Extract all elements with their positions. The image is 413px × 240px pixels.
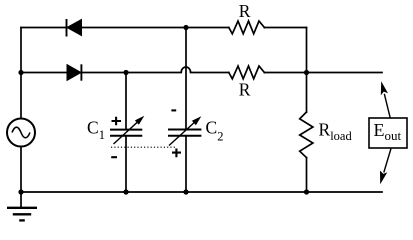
resistor R (middle) bbox=[229, 66, 265, 79]
wire C2 branch top bbox=[185, 28, 187, 130]
Eout arrow upper bbox=[381, 81, 390, 118]
wire Rload bottom bbox=[306, 158, 308, 192]
wire top D1 to R bbox=[82, 27, 229, 29]
ground bbox=[7, 208, 37, 221]
junction bottom Rload node bbox=[304, 189, 309, 194]
AC source V1 bbox=[7, 119, 35, 147]
polarity plus C1 bbox=[112, 117, 122, 126]
svg-text:R: R bbox=[239, 1, 251, 21]
svg-text:C2: C2 bbox=[206, 117, 224, 143]
wire hop over C2 branch bbox=[181, 67, 190, 73]
Eout box bbox=[369, 118, 407, 148]
polarity minus C1 bbox=[111, 156, 117, 158]
diode D2 bbox=[67, 64, 81, 80]
capacitor C2 plates bbox=[168, 130, 201, 136]
junction bottom C2 node bbox=[183, 189, 188, 194]
wire top left of D1 bbox=[21, 27, 66, 29]
diode D1 bbox=[67, 19, 82, 37]
junction mid Rload node bbox=[304, 70, 309, 75]
wire right drop bbox=[306, 28, 308, 73]
capacitor C1 variable arrow bbox=[114, 116, 145, 144]
wire mid R to output bbox=[264, 72, 382, 74]
svg-text:R: R bbox=[239, 80, 251, 100]
Eout arrow lower bbox=[380, 149, 391, 185]
junction mid left node bbox=[18, 70, 23, 75]
wire C1 branch top bbox=[125, 73, 127, 130]
wire bottom bus bbox=[21, 191, 382, 193]
resistor Rload bbox=[300, 112, 313, 158]
capacitor C1 plates bbox=[110, 130, 142, 136]
wire mid hop to R bbox=[191, 72, 229, 74]
resistor R (top) bbox=[229, 21, 265, 34]
polarity plus C2 bbox=[172, 149, 181, 158]
polarity minus C2 bbox=[171, 109, 176, 111]
wire C2 branch bottom bbox=[185, 136, 187, 192]
svg-text:C1: C1 bbox=[87, 118, 105, 143]
wire ground stem bbox=[20, 192, 22, 207]
wire left bus upper bbox=[20, 28, 22, 119]
junction mid C1 node bbox=[123, 70, 128, 75]
wire mid D2 to hop bbox=[82, 72, 181, 74]
wire left bus lower bbox=[20, 147, 22, 192]
wire C1 branch bottom bbox=[125, 136, 127, 192]
wire Rload top bbox=[306, 73, 308, 113]
junction bottom left node bbox=[18, 189, 23, 194]
wire top R to corner bbox=[264, 27, 306, 29]
wire mid left of D2 bbox=[21, 72, 67, 74]
svg-text:Rload: Rload bbox=[319, 119, 353, 143]
junction top C2 node bbox=[183, 25, 188, 30]
junction bottom C1 node bbox=[123, 189, 128, 194]
capacitor C2 variable arrow bbox=[169, 116, 201, 145]
dotted polarity link C1 to C2 bbox=[111, 146, 175, 148]
